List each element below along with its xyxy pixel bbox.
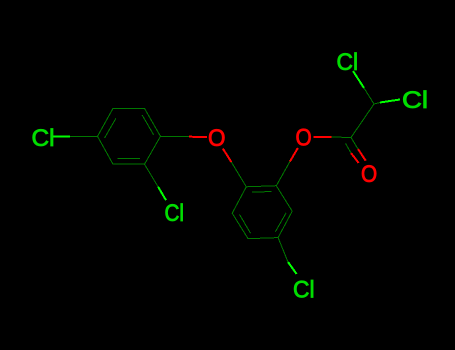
svg-text:Cl: Cl [402,87,428,114]
svg-text:Cl: Cl [32,125,55,152]
svg-text:O: O [361,161,377,188]
svg-text:Cl: Cl [165,200,185,227]
svg-text:O: O [296,125,312,152]
svg-text:Cl: Cl [293,276,315,303]
svg-text:Cl: Cl [337,49,359,76]
svg-text:O: O [208,125,226,152]
